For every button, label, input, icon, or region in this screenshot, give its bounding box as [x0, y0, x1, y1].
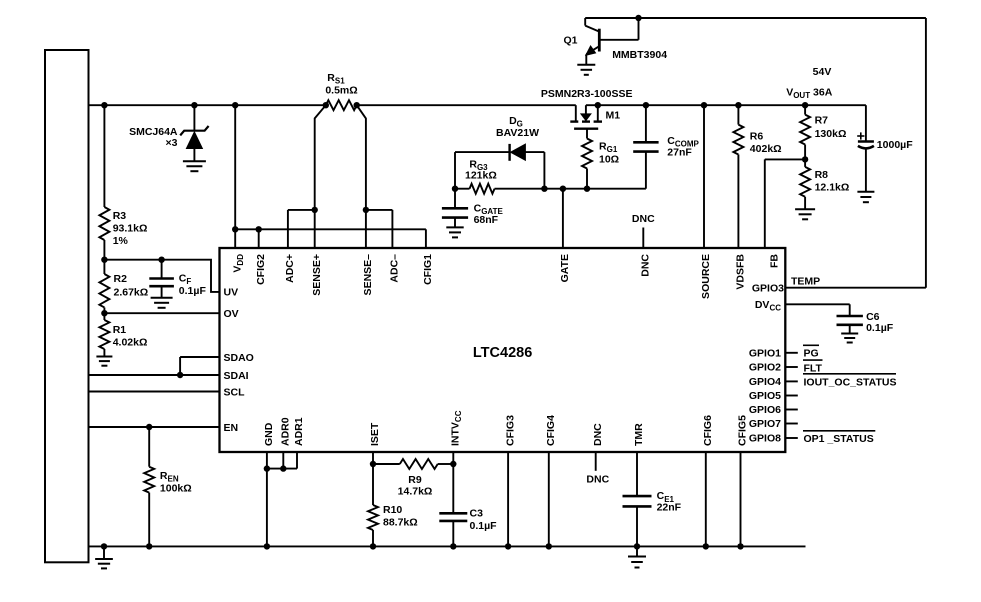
svg-text:CFIG6: CFIG6 [702, 415, 714, 446]
svg-text:R1: R1 [113, 324, 127, 336]
svg-text:M1: M1 [606, 109, 621, 121]
label MMBT3904 [612, 49, 667, 61]
svg-text:0.1µF: 0.1µF [470, 520, 498, 532]
wire CFIG2 pin [258, 229, 260, 248]
svg-text:FB: FB [768, 254, 780, 268]
svg-text:UV: UV [224, 287, 239, 299]
wire GATE pin [562, 189, 564, 248]
svg-text:121kΩ: 121kΩ [465, 169, 497, 181]
node R7 R8 junction [802, 156, 808, 162]
svg-text:Q1: Q1 [563, 35, 577, 47]
node bus SMCJ tap [191, 102, 197, 108]
label VOUT 36A [786, 87, 833, 101]
node rail CFIG5 [737, 543, 743, 549]
wire CFIG6 pin [705, 452, 707, 546]
wire GPIO1 stub [785, 352, 798, 354]
svg-text:GPIO6: GPIO6 [749, 404, 781, 416]
node ADR0 junction [280, 465, 286, 471]
node RS1 right [354, 102, 360, 108]
label IOUT_OC_STATUS [803, 374, 896, 389]
pin ADC- [389, 254, 401, 283]
node rail TMR [634, 543, 640, 549]
label LTC4286 [473, 345, 532, 361]
resistor R9 [373, 459, 453, 469]
label R9 [398, 474, 433, 498]
pin SDAI [224, 370, 249, 382]
svg-text:1%: 1% [113, 235, 129, 247]
pin GPIO1 [749, 348, 781, 360]
svg-text:FLT: FLT [804, 362, 823, 374]
svg-text:SDAI: SDAI [224, 370, 249, 382]
node rail R10 [370, 543, 376, 549]
svg-text:SCL: SCL [224, 386, 246, 398]
node rail C3 [450, 543, 456, 549]
svg-text:R10: R10 [383, 504, 402, 516]
wire SOURCE pin [703, 105, 705, 248]
pin GND [263, 422, 275, 446]
svg-text:EN: EN [224, 422, 239, 434]
svg-text:DNC: DNC [632, 213, 655, 225]
node RS1 left [323, 102, 329, 108]
wire OV line [104, 312, 219, 314]
svg-text:PSMN2R3-100SSE: PSMN2R3-100SSE [541, 88, 633, 100]
wire SDAI [89, 374, 220, 376]
svg-text:0.1µF: 0.1µF [866, 322, 894, 334]
pin OV [224, 308, 239, 320]
pin CFIG5 [737, 415, 749, 446]
diode DG BAV21W [455, 144, 544, 189]
node CFIG2 tap [256, 226, 262, 232]
label R3 [113, 210, 148, 247]
wire ADR1 pin [267, 452, 297, 469]
label CF [179, 272, 207, 296]
wire CFIG5 pin [740, 452, 742, 546]
svg-text:10Ω: 10Ω [599, 154, 619, 166]
svg-text:4.02kΩ: 4.02kΩ [113, 337, 148, 349]
pin TMR [633, 423, 645, 446]
transistor M1 PSMN2R3-100SSE [570, 105, 602, 129]
ground R8 [795, 209, 815, 219]
label M1 [606, 109, 621, 121]
ground CF [151, 298, 173, 308]
label RG1 [599, 141, 619, 166]
svg-text:R7: R7 [815, 114, 829, 126]
node R2 R1 junction [101, 310, 107, 316]
node ISET junction [370, 461, 376, 467]
capacitor C3 [439, 513, 467, 521]
pin DNC bottom [592, 423, 604, 446]
pin UV [224, 287, 239, 299]
label 1000uF [877, 139, 913, 151]
svg-text:22nF: 22nF [657, 502, 682, 514]
label 54V [813, 66, 832, 78]
ground rail TMR [628, 546, 646, 567]
label TEMP [791, 275, 820, 287]
svg-text:R2: R2 [114, 273, 128, 285]
resistor R1 [99, 313, 109, 356]
label REN [160, 470, 192, 495]
svg-text:VDSFB: VDSFB [735, 254, 747, 290]
node bus CCOMP tap [643, 102, 649, 108]
label PG [803, 345, 819, 359]
wire GPIO7 stub [785, 423, 798, 425]
svg-text:0.5mΩ: 0.5mΩ [325, 85, 357, 97]
node Q1 base-collector junction [635, 15, 641, 21]
svg-text:2.67kΩ: 2.67kΩ [114, 287, 149, 299]
wire ADC- link [366, 210, 393, 248]
capacitor CGATE [442, 189, 468, 228]
pin FB [768, 254, 780, 268]
label DNC top [632, 213, 655, 225]
label CE1 [657, 490, 682, 514]
label C6 [866, 311, 894, 334]
wire VOUT bus right segment [586, 104, 866, 106]
resistor REN [144, 427, 154, 546]
svg-text:BAV21W: BAV21W [496, 127, 539, 139]
wire Q1 line down right side [925, 18, 927, 288]
svg-text:SOURCE: SOURCE [700, 254, 712, 299]
svg-text:GPIO8: GPIO8 [749, 433, 781, 445]
svg-text:ADC+: ADC+ [284, 254, 296, 283]
pin DNC top [640, 254, 652, 277]
svg-text:DNC: DNC [592, 423, 604, 446]
transistor Q1 MMBT3904 [585, 18, 926, 65]
ground SMCJ64A [183, 161, 206, 171]
svg-text:SENSE+: SENSE+ [311, 254, 323, 296]
wire ADC+ link [288, 210, 315, 248]
wire DNC bottom stub [595, 452, 597, 471]
svg-text:100kΩ: 100kΩ [160, 483, 192, 495]
node SENSE+ tap [312, 207, 318, 213]
pin CFIG3 [504, 415, 516, 446]
pin GPIO5 [749, 390, 781, 402]
label RS1 [325, 72, 357, 97]
svg-text:93.1kΩ: 93.1kΩ [113, 223, 148, 235]
op-amp U1 LTC4286 body [220, 248, 786, 452]
capacitor CCOMP [633, 105, 658, 189]
label R6 [750, 131, 782, 155]
label CCOMP [667, 135, 699, 159]
node CF tap [158, 257, 164, 263]
resistor R2 [99, 260, 109, 314]
wire TMR pin [636, 452, 638, 546]
ground COUT [857, 192, 874, 202]
node SENSE- tap [363, 207, 369, 213]
resistor R10 [368, 464, 378, 546]
svg-text:IOUT_OC_STATUS: IOUT_OC_STATUS [804, 376, 897, 388]
svg-text:54V: 54V [813, 66, 832, 78]
pin ADR0 [280, 417, 292, 446]
label R1 [113, 324, 148, 348]
diode SMCJ64A TVS [180, 105, 208, 161]
svg-text:ADC–: ADC– [389, 254, 401, 283]
wire CFIG4 pin [548, 452, 550, 546]
pin CFIG6 [702, 415, 714, 446]
wire GPIO2 stub [785, 366, 798, 368]
node bus VDD tap [232, 102, 238, 108]
capacitor COUT 1000uF [857, 105, 874, 192]
pin ADR1 [293, 417, 305, 446]
wire INTVCC pin [452, 452, 454, 546]
svg-text:GPIO4: GPIO4 [749, 376, 781, 388]
node gate line left [452, 186, 458, 192]
svg-text:SENSE–: SENSE– [362, 254, 374, 296]
svg-text:GPIO3: GPIO3 [752, 283, 784, 295]
pin SENSE+ [311, 254, 323, 296]
node rail CFIG6 [703, 543, 709, 549]
pin EN [224, 422, 239, 434]
pin GPIO7 [749, 418, 781, 430]
svg-text:C3: C3 [470, 508, 484, 520]
svg-text:12.1kΩ: 12.1kΩ [815, 182, 850, 194]
node RG1 gate line [584, 186, 590, 192]
label R8 [815, 169, 850, 194]
resistor R8 [800, 159, 810, 209]
node rail GND pin [264, 543, 270, 549]
wire gate drive line [455, 188, 646, 190]
wire VIN bus left segment [89, 104, 326, 106]
svg-text:LTC4286: LTC4286 [473, 345, 532, 361]
svg-text:GPIO1: GPIO1 [749, 348, 781, 360]
wire ISET pin [372, 452, 374, 464]
pin SOURCE [700, 254, 712, 299]
resistor RS1 (sense) [326, 100, 357, 110]
node INTVCC R9 junction [450, 461, 456, 467]
ground R1 [96, 357, 112, 366]
wire CFIG3 pin [507, 452, 509, 546]
resistor RG1 [582, 129, 592, 189]
svg-text:402kΩ: 402kΩ [750, 143, 782, 155]
wire ADR0 pin [282, 452, 284, 469]
svg-text:CFIG1: CFIG1 [422, 254, 434, 285]
label DG [496, 115, 539, 139]
pin DVCC [755, 299, 781, 313]
resistor R3 [99, 105, 109, 260]
svg-text:CFIG2: CFIG2 [255, 254, 267, 285]
pin SCL [224, 386, 246, 398]
ground rail left [95, 546, 113, 568]
capacitor C6 [837, 316, 863, 334]
node bus R7 tap [802, 102, 808, 108]
svg-text:GATE: GATE [559, 254, 571, 282]
pin INTVCC [450, 410, 464, 446]
ground C6 [841, 334, 858, 343]
label PSMN2R3-100SSE [541, 88, 633, 100]
svg-text:130kΩ: 130kΩ [815, 128, 847, 140]
wire CFIG1 link [235, 229, 426, 248]
label R2 [114, 273, 149, 299]
label R7 [815, 114, 847, 140]
wire GND pin [266, 452, 268, 546]
node VDD cfg line [232, 226, 238, 232]
svg-text:OV: OV [224, 308, 239, 320]
svg-text:PG: PG [804, 348, 819, 360]
label FLT [803, 360, 823, 374]
wire DVCC [785, 304, 849, 316]
capacitor CF [149, 260, 174, 298]
pin SDAO [224, 352, 254, 364]
pin VDSFB [735, 254, 747, 290]
svg-text:ADR0: ADR0 [280, 417, 292, 446]
label DNC bottom [586, 474, 609, 486]
label C3 [470, 508, 498, 533]
capacitor CE1 [623, 496, 652, 506]
node gate line diode return [541, 186, 547, 192]
svg-text:CFIG4: CFIG4 [545, 415, 557, 446]
svg-text:1000µF: 1000µF [877, 139, 913, 151]
node GND adr line [264, 465, 270, 471]
svg-text:88.7kΩ: 88.7kΩ [383, 517, 418, 529]
svg-text:R3: R3 [113, 210, 127, 222]
node M1 source [595, 102, 601, 108]
label OP1_STATUS [803, 431, 875, 445]
svg-text:R9: R9 [408, 474, 422, 486]
svg-text:14.7kΩ: 14.7kΩ [398, 486, 433, 498]
label SMCJ64A [129, 126, 178, 149]
node rail ground stub [101, 543, 107, 549]
label Q1 [563, 35, 577, 47]
pin GATE [559, 254, 571, 282]
svg-text:27nF: 27nF [667, 147, 692, 159]
wire bus RS1 to M1 drain [357, 105, 576, 121]
pin CFIG1 [422, 254, 434, 285]
label R10 [383, 504, 418, 529]
node bus R6 tap [735, 102, 741, 108]
svg-text:GPIO5: GPIO5 [749, 390, 781, 402]
svg-text:R6: R6 [750, 131, 764, 143]
pin CFIG2 [255, 254, 267, 285]
node gate line GATE pin [560, 186, 566, 192]
wire VDD pin [234, 105, 236, 248]
wire GPIO4 stub [785, 380, 798, 382]
svg-text:68nF: 68nF [474, 214, 499, 226]
pin VDD [231, 254, 245, 273]
pin GPIO4 [749, 376, 781, 388]
svg-text:DNC: DNC [640, 254, 652, 277]
wire TEMP [785, 287, 926, 289]
pin GPIO8 [749, 433, 781, 445]
svg-text:OP1 _STATUS: OP1 _STATUS [804, 433, 874, 445]
ground CGATE [446, 227, 463, 237]
svg-text:SDAO: SDAO [224, 352, 254, 364]
svg-text:ISET: ISET [369, 422, 381, 446]
svg-text:ADR1: ADR1 [293, 417, 305, 446]
node rail CFIG3 [505, 543, 511, 549]
svg-text:GPIO7: GPIO7 [749, 418, 781, 430]
svg-text:MMBT3904: MMBT3904 [612, 49, 667, 61]
svg-text:CFIG3: CFIG3 [504, 415, 516, 446]
svg-text:×3: ×3 [166, 137, 178, 149]
pin CFIG4 [545, 415, 557, 446]
node R3 R2 junction [101, 257, 107, 263]
svg-text:GND: GND [263, 422, 275, 446]
pin SENSE- [362, 254, 374, 296]
wire FB jog [765, 159, 805, 248]
wire UV line [104, 260, 219, 292]
ground Q1 emitter [577, 65, 595, 75]
wire GPIO6 stub [785, 409, 798, 411]
pin GPIO6 [749, 404, 781, 416]
resistor R6 [733, 105, 743, 248]
svg-text:GPIO2: GPIO2 [749, 362, 781, 374]
pin GPIO3 [752, 283, 784, 295]
label CGATE [474, 202, 504, 226]
node SDAO SDAI junction [177, 372, 183, 378]
resistor R7 [800, 105, 810, 159]
wire SENSE+ drop [315, 105, 326, 248]
pin ADC+ [284, 254, 296, 283]
svg-text:VOUT 36A: VOUT 36A [786, 87, 833, 101]
svg-text:R8: R8 [815, 169, 829, 181]
backplane connector [45, 50, 89, 562]
wire GPIO8 stub [785, 437, 798, 439]
node bus SOURCE tap [701, 102, 707, 108]
wire GPIO5 stub [785, 395, 798, 397]
node bus R3 tap [101, 102, 107, 108]
wire SDAO jog [180, 357, 219, 375]
wire ground rail [89, 545, 806, 547]
wire SCL [89, 391, 220, 393]
resistor RG3 [470, 184, 495, 194]
pin GPIO2 [749, 362, 781, 374]
node rail CFIG4 [546, 543, 552, 549]
node EN REN tap [146, 424, 152, 430]
node rail REN [146, 543, 152, 549]
svg-text:0.1µF: 0.1µF [179, 285, 207, 297]
pin ISET [369, 422, 381, 446]
svg-text:DNC: DNC [586, 474, 609, 486]
wire SENSE- drop [357, 105, 366, 248]
wire EN [89, 426, 220, 428]
svg-text:CFIG5: CFIG5 [737, 415, 749, 446]
svg-text:TMR: TMR [633, 423, 645, 446]
label RG3 [465, 158, 497, 181]
svg-text:TEMP: TEMP [791, 275, 820, 287]
wire DNC top stub [642, 228, 644, 249]
